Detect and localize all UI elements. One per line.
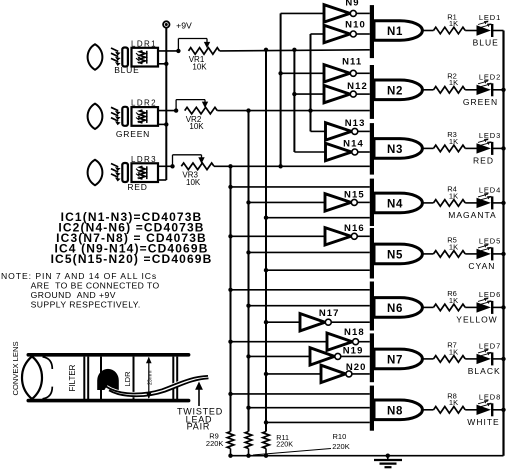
svg-text:1K: 1K <box>449 398 458 407</box>
LED LED6 (YELLOW) <box>465 290 503 314</box>
node VR1 bus (blue signal) <box>264 48 268 432</box>
node VR3 bus (red signal) <box>228 164 232 431</box>
label colour BLACK <box>468 366 501 376</box>
svg-text:N1: N1 <box>387 26 403 38</box>
note IC assignments <box>51 210 213 266</box>
svg-text:220K: 220K <box>332 442 350 451</box>
label LDR1 <box>131 39 157 48</box>
svg-text:10K: 10K <box>189 122 204 131</box>
svg-text:220K: 220K <box>206 439 224 448</box>
filter of LDR2 <box>122 107 128 126</box>
wire VR2 wiper loop <box>176 100 208 111</box>
tube end wall <box>173 357 177 399</box>
label VR2 value 10K <box>189 122 204 131</box>
svg-text:BLUE: BLUE <box>114 65 139 75</box>
svg-text:N17: N17 <box>319 308 340 319</box>
svg-text:GREEN: GREEN <box>116 129 150 139</box>
junction VR2 left <box>174 108 178 112</box>
svg-text:1K: 1K <box>449 19 458 28</box>
tube partition left <box>100 357 102 399</box>
svg-text:N13: N13 <box>345 118 366 129</box>
svg-text:23mm: 23mm <box>148 371 154 385</box>
wire LDR2 bottom terminal to +9V rail <box>158 123 166 125</box>
lens for LDR1 <box>88 44 103 69</box>
svg-text:GREEN: GREEN <box>463 97 498 107</box>
note supply pins <box>1 271 160 310</box>
inverter N20 <box>264 362 370 382</box>
svg-text:N3: N3 <box>387 144 403 156</box>
svg-text:CYAN: CYAN <box>468 261 495 271</box>
LED LED2 (GREEN) <box>465 72 503 96</box>
AND gate N5 <box>370 228 423 279</box>
filter of LDR3 <box>122 163 128 182</box>
ground symbol <box>374 454 402 468</box>
svg-text:SUPPLY RESPECTIVELY.: SUPPLY RESPECTIVELY. <box>31 300 141 310</box>
resistor R10 220K <box>245 432 350 458</box>
light arrows into LDR3 <box>111 164 121 182</box>
LED LED8 (WHITE) <box>465 392 503 416</box>
label BLUE filter colour <box>114 65 139 75</box>
wire VR2 output to gate N2 input <box>217 110 369 112</box>
svg-text:CONVEX LENS: CONVEX LENS <box>11 341 20 395</box>
svg-text:RED: RED <box>473 156 494 166</box>
svg-text:LED5: LED5 <box>479 237 501 246</box>
resistor R6 1K <box>434 289 466 311</box>
label RED filter colour <box>127 182 147 192</box>
node VR2 bus (green signal) <box>246 108 250 431</box>
AND gate N4 <box>370 179 423 226</box>
svg-text:220K: 220K <box>276 440 293 449</box>
wire LDR1 top terminal <box>158 50 178 52</box>
twisted lead pair <box>106 376 209 396</box>
label LDR2 <box>131 99 157 108</box>
wire feed to N12/N14 from VR1 <box>292 48 296 152</box>
svg-text:BLUE: BLUE <box>473 38 499 48</box>
wire N1 output <box>423 30 434 32</box>
tube partition right <box>133 357 135 399</box>
AND gate N7 <box>370 333 423 382</box>
svg-text:PAIR: PAIR <box>187 422 211 432</box>
wire LED cathode bus <box>501 31 505 456</box>
svg-text:YELLOW: YELLOW <box>456 315 497 325</box>
svg-text:LED2: LED2 <box>479 72 501 81</box>
wire N4 output <box>423 202 434 204</box>
wire LDR3 bottom terminal to +9V rail <box>158 179 166 181</box>
label colour YELLOW <box>456 315 497 325</box>
LED LED1 (BLUE) <box>465 13 503 37</box>
label colour RED <box>473 156 494 166</box>
potentiometer VR2 10K <box>185 107 218 114</box>
label VR1 <box>189 55 205 64</box>
wire N5 output <box>423 253 434 255</box>
svg-text:IC5(N15-N20) =CD4069B: IC5(N15-N20) =CD4069B <box>51 252 213 266</box>
inverter N11 <box>278 57 369 82</box>
svg-text:NOTE: PIN 7 AND 14 OF ALL ICs: NOTE: PIN 7 AND 14 OF ALL ICs <box>1 271 157 281</box>
label colour WHITE <box>467 417 499 427</box>
label FILTER <box>68 364 77 391</box>
wire N5 input2 from VR2 bus <box>246 250 369 254</box>
wire N4 input3 from VR1 bus <box>264 216 370 220</box>
svg-text:N2: N2 <box>387 85 403 97</box>
light arrows into LDR1 <box>111 48 121 66</box>
potentiometer VR3 10K <box>181 163 214 170</box>
label TWISTED LEAD PAIR <box>177 407 223 432</box>
svg-text:LDR1: LDR1 <box>131 39 157 48</box>
AND gate N1 <box>370 5 423 58</box>
wire N5 input3 from VR1 bus <box>264 268 370 272</box>
svg-text:N7: N7 <box>387 354 403 366</box>
wire ground rail <box>231 455 504 457</box>
label GREEN filter colour <box>116 129 150 139</box>
svg-text:N12: N12 <box>347 81 368 92</box>
svg-text:10K: 10K <box>186 178 201 187</box>
inverter N19 <box>246 346 369 366</box>
wire LDR2 top terminal <box>158 110 176 112</box>
inverter N10 <box>311 19 370 42</box>
LDR cell LDR2 <box>132 107 159 126</box>
wire N8 input3 from VR1 bus <box>264 420 370 424</box>
resistor R11 220K <box>263 432 294 458</box>
wire LDR1 bottom terminal to +9V rail <box>158 63 166 65</box>
filter of LDR1 <box>122 48 128 67</box>
svg-text:LDR: LDR <box>123 371 132 387</box>
wire LDR3 top terminal <box>158 165 173 167</box>
label VR1 value 10K <box>192 62 207 71</box>
svg-text:N11: N11 <box>342 57 362 68</box>
LED LED5 (CYAN) <box>465 237 503 261</box>
LDR cell LDR1 <box>132 48 159 67</box>
wire VR1 wiper loop <box>178 39 210 51</box>
convex lens element <box>22 356 42 399</box>
svg-text:LED7: LED7 <box>479 342 501 351</box>
junction LDR2 bottom on +9V rail <box>164 122 168 126</box>
svg-text:N20: N20 <box>346 362 367 373</box>
junction VR3 left <box>170 164 174 168</box>
LED LED4 (MAGANTA) <box>465 186 503 210</box>
inverter N18 <box>228 327 369 350</box>
svg-text:1K: 1K <box>449 347 458 356</box>
wire N6 input1 from VR3 bus <box>228 288 369 292</box>
wire VR1 output to gate N1 input <box>220 50 370 51</box>
svg-text:LDR3: LDR3 <box>131 155 157 164</box>
label LDR <box>123 371 132 387</box>
+9V supply terminal <box>163 20 192 30</box>
inverter N16 <box>228 223 369 245</box>
wire N8 output <box>423 409 434 411</box>
svg-text:1K: 1K <box>449 296 458 305</box>
wire N3 output <box>423 147 434 149</box>
resistor R3 1K <box>434 130 466 152</box>
svg-text:LED6: LED6 <box>479 290 501 299</box>
svg-text:LED1: LED1 <box>479 13 501 22</box>
wire N8 input1 from VR3 bus <box>228 392 369 396</box>
svg-text:N5: N5 <box>387 249 403 261</box>
inverter N9 <box>281 0 370 22</box>
svg-text:N15: N15 <box>344 190 365 201</box>
svg-text:GROUND AND +9V: GROUND AND +9V <box>31 290 116 300</box>
tube inner diameter dimension arrow <box>146 357 154 399</box>
potentiometer VR1 10K <box>189 48 220 55</box>
svg-text:LED8: LED8 <box>479 392 501 401</box>
wire N8 input2 from VR2 bus <box>246 406 369 410</box>
svg-text:1K: 1K <box>449 137 458 146</box>
inverter N12 <box>292 81 370 103</box>
svg-text:1K: 1K <box>449 78 458 87</box>
svg-text:1K: 1K <box>449 242 458 251</box>
label colour GREEN <box>463 97 498 107</box>
wire N6 output <box>423 306 434 308</box>
resistor R4 1K <box>434 185 466 207</box>
svg-text:N8: N8 <box>387 405 403 417</box>
AND gate N6 <box>370 282 423 331</box>
label colour MAGANTA <box>448 210 496 220</box>
resistor R8 1K <box>434 392 466 414</box>
wire feed to N9/N11 from VR3 <box>278 13 282 168</box>
+9V rail wire <box>165 28 167 181</box>
sensor tube body <box>28 355 188 401</box>
resistor R2 1K <box>434 72 466 94</box>
LDR cell LDR3 <box>132 163 159 182</box>
svg-text:LED3: LED3 <box>479 131 501 140</box>
label CONVEX LENS <box>11 341 20 395</box>
svg-text:N14: N14 <box>343 139 364 150</box>
filter slab in tube <box>84 357 88 399</box>
svg-text:FILTER: FILTER <box>68 364 77 391</box>
inverter N15 <box>246 190 369 212</box>
svg-text:N4: N4 <box>387 198 403 210</box>
AND gate N2 <box>370 65 423 119</box>
svg-text:N19: N19 <box>343 346 364 357</box>
LDR cell in tube <box>97 369 119 390</box>
twisted lead pair callout arrow <box>195 382 203 407</box>
svg-text:LDR2: LDR2 <box>131 99 157 108</box>
lens mount arcs <box>43 357 53 399</box>
svg-text:BLACK: BLACK <box>468 366 501 376</box>
wire N6 input2 from VR2 bus <box>246 304 369 308</box>
junction VR1 left <box>176 49 180 53</box>
wire N4 input1 from VR3 bus <box>228 185 369 189</box>
resistor R7 1K <box>434 341 466 363</box>
wire N2 output <box>423 89 434 91</box>
svg-text:N6: N6 <box>387 303 403 315</box>
svg-text:LED4: LED4 <box>479 186 501 195</box>
svg-text:N18: N18 <box>344 327 365 338</box>
resistor R5 1K <box>434 236 466 257</box>
LED LED7 (BLACK) <box>465 342 503 366</box>
label colour BLUE <box>473 38 499 48</box>
svg-text:N9: N9 <box>345 0 359 8</box>
inverter N14 <box>294 139 369 161</box>
wire N7 output <box>423 358 434 360</box>
LED LED3 (RED) <box>465 131 503 155</box>
svg-text:R10: R10 <box>333 432 347 441</box>
svg-text:RED: RED <box>127 182 147 192</box>
label VR2 <box>186 115 202 124</box>
AND gate N8 <box>370 386 423 431</box>
svg-text:N16: N16 <box>344 223 365 234</box>
label colour CYAN <box>468 261 495 271</box>
svg-text:ARE TO BE CONNECTED TO: ARE TO BE CONNECTED TO <box>31 281 160 291</box>
svg-text:N10: N10 <box>345 19 366 30</box>
inverter N17 <box>264 308 370 331</box>
resistor R9 220K <box>206 432 234 458</box>
resistor R1 1K <box>434 12 466 34</box>
inverter N13 <box>311 118 370 140</box>
wire VR3 wiper loop <box>173 155 205 167</box>
svg-text:+9V: +9V <box>176 20 192 30</box>
wire VR3 output to gate N3 input <box>214 165 370 167</box>
svg-text:WHITE: WHITE <box>467 417 499 427</box>
light arrows into LDR2 <box>111 107 121 125</box>
svg-text:1K: 1K <box>449 191 458 200</box>
wire feed to N10/N13 from VR2 <box>308 34 312 131</box>
lens for LDR2 <box>88 104 103 129</box>
label VR3 value 10K <box>186 178 201 187</box>
lens for LDR3 <box>88 160 103 185</box>
AND gate N3 <box>370 123 423 175</box>
svg-text:10K: 10K <box>192 62 207 71</box>
junction LDR1 bottom on +9V rail <box>164 62 168 66</box>
label VR3 <box>182 171 198 180</box>
label LDR3 <box>131 155 157 164</box>
svg-text:MAGANTA: MAGANTA <box>448 210 496 220</box>
